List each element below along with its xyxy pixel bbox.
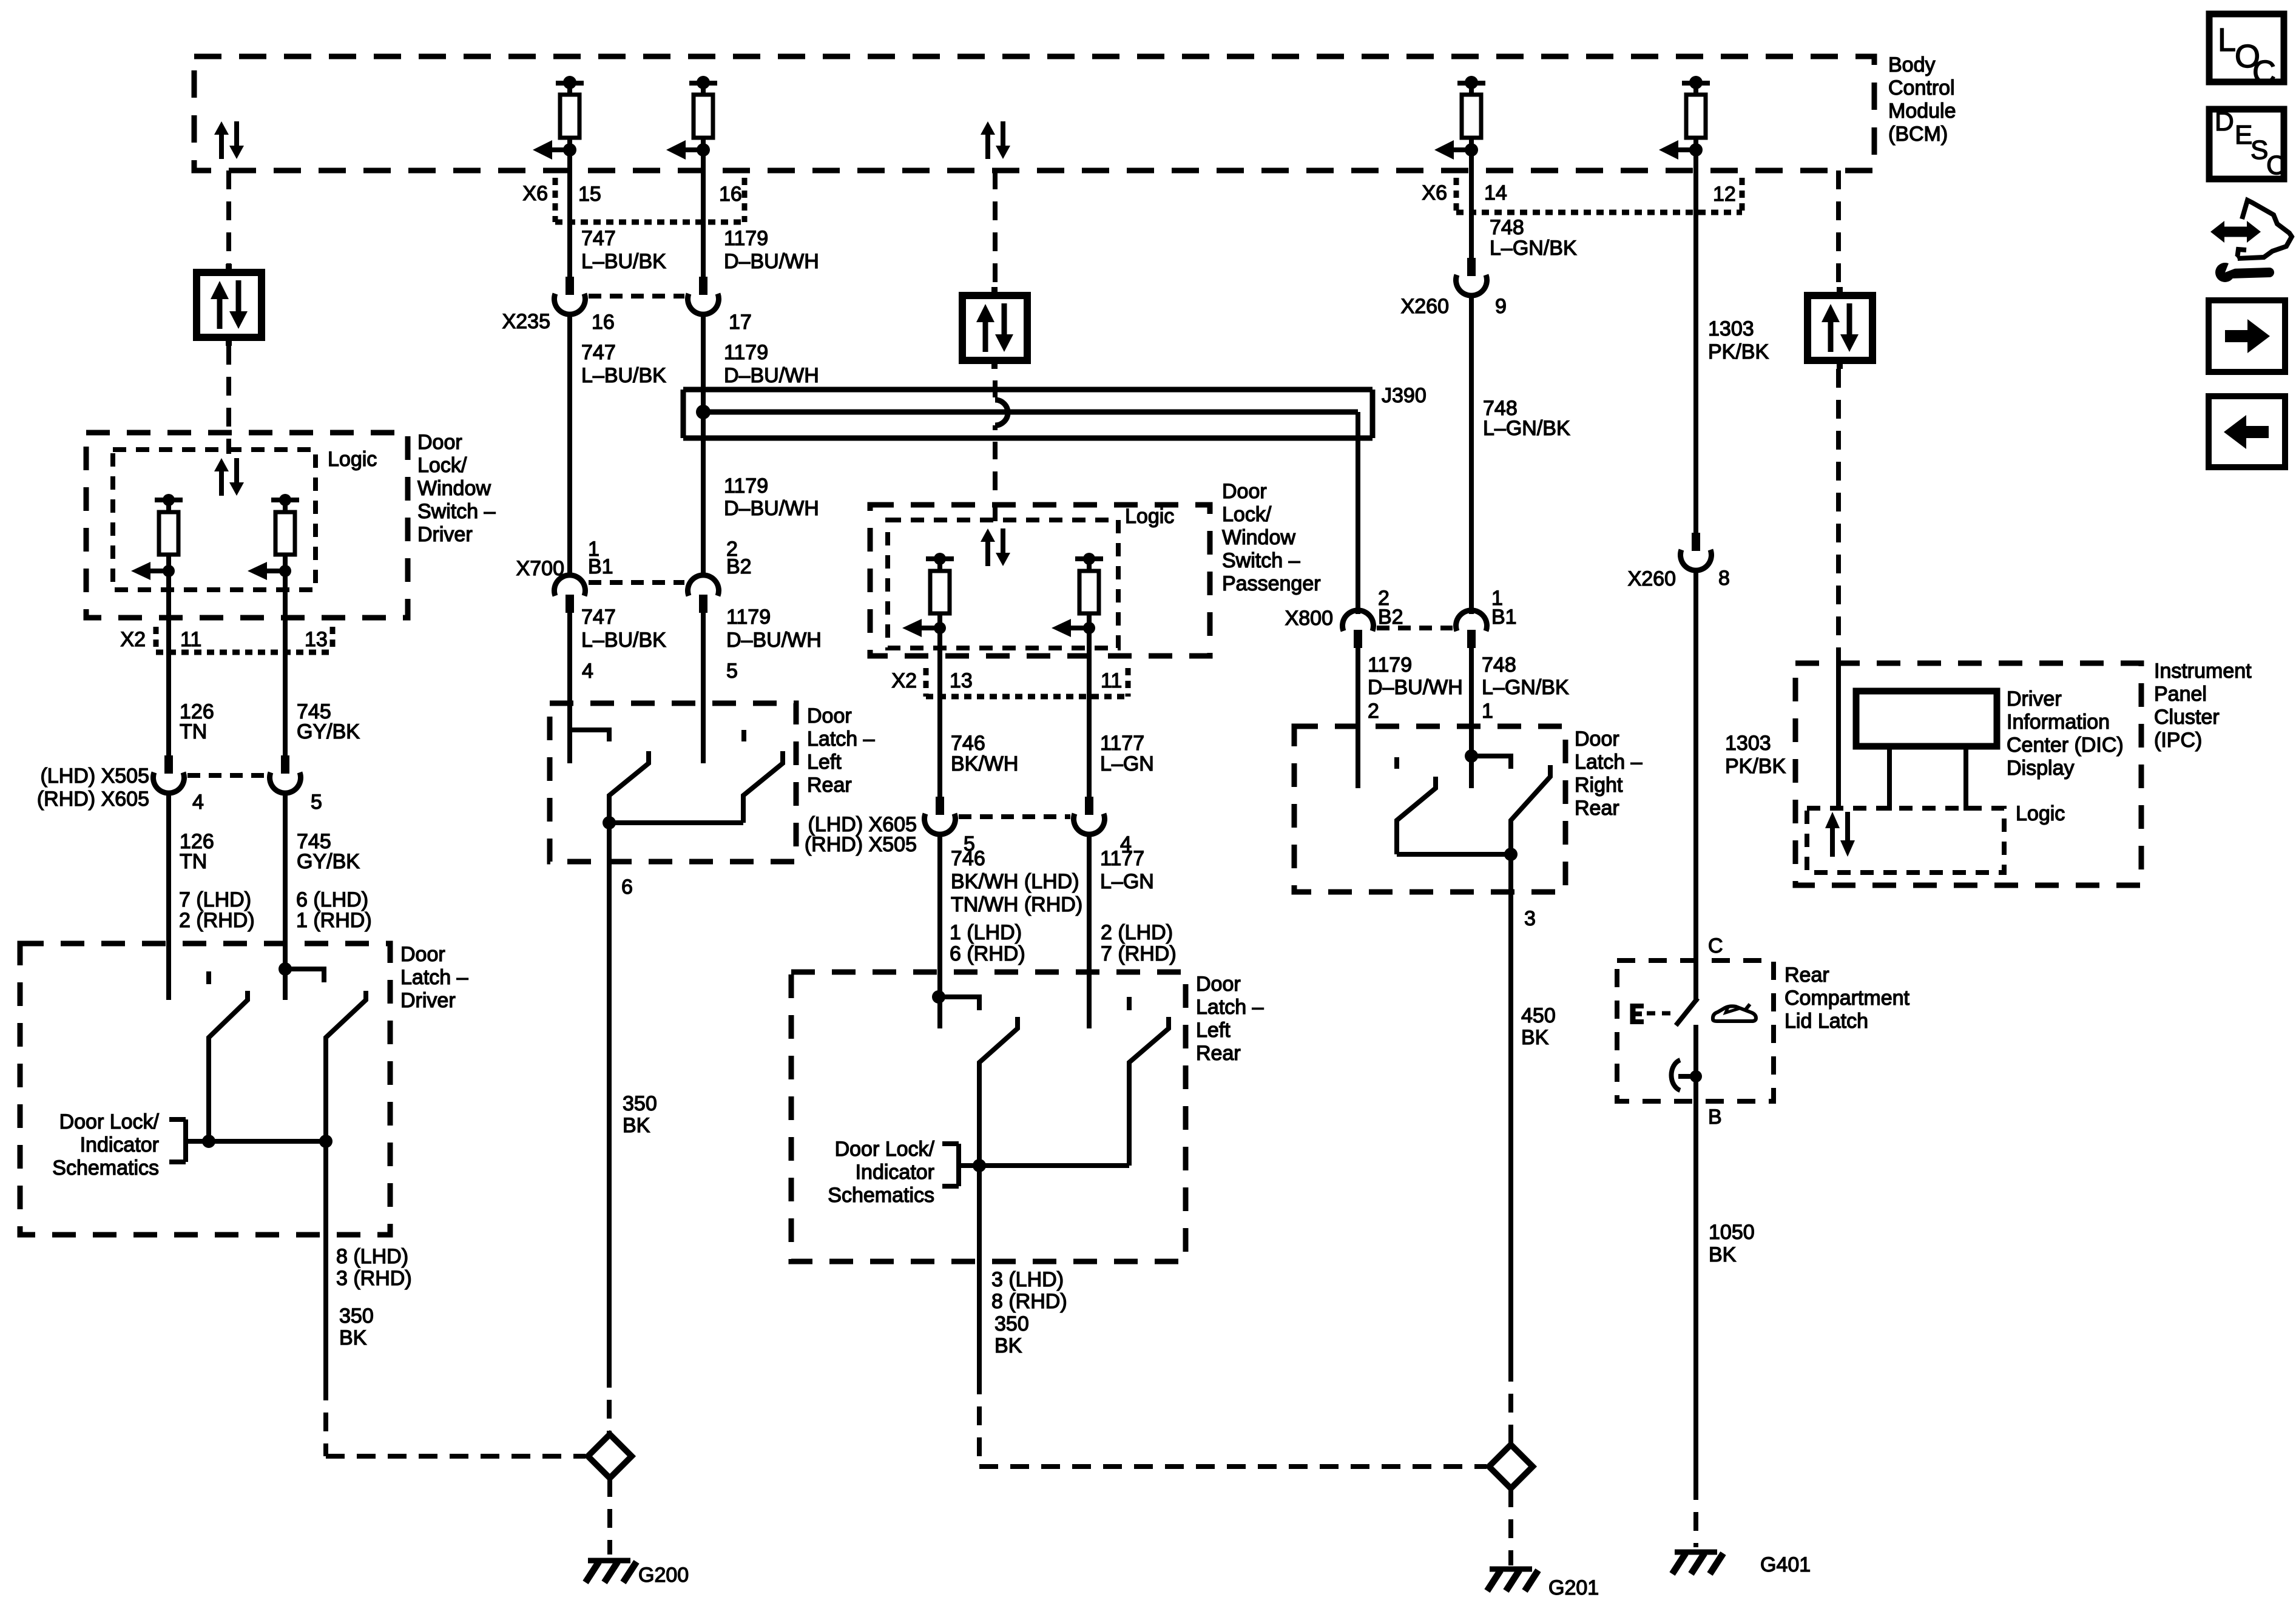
svg-text:B2: B2	[726, 555, 752, 578]
crossover hop at J390 middle rail	[995, 400, 1008, 425]
wire 748 from BCM pin 14 to X260	[1469, 170, 1474, 258]
svg-text:BK/WH (LHD): BK/WH (LHD)	[951, 870, 1079, 893]
svg-text:6 (LHD): 6 (LHD)	[296, 888, 368, 911]
svg-text:B2: B2	[1378, 606, 1403, 629]
svg-text:2 (RHD): 2 (RHD)	[179, 909, 255, 932]
component box: Door Lock/Window Switch - Passenger	[870, 505, 1210, 656]
resistor: driver lock switch	[155, 498, 183, 502]
svg-text:Rear: Rear	[1784, 964, 1829, 987]
svg-text:6: 6	[621, 876, 633, 899]
wire 746 from X2-13 to X605	[937, 697, 942, 797]
svg-text:C: C	[2266, 150, 2286, 180]
wire: BCM to driver switch (dashed logic line)	[226, 170, 231, 265]
svg-text:Door Lock/: Door Lock/	[59, 1110, 160, 1133]
svg-text:TN/WH (RHD): TN/WH (RHD)	[951, 893, 1082, 916]
svg-text:Indicator: Indicator	[856, 1161, 934, 1184]
svg-text:BK: BK	[1709, 1243, 1737, 1266]
dashed ground run (passenger latch)	[977, 1376, 982, 1467]
svg-text:Lock/: Lock/	[417, 454, 467, 477]
dashed run below G201 diamond	[1508, 1488, 1513, 1565]
switch blade 1 (passenger latch)	[979, 1017, 1018, 1166]
wire: dashed below IPC serial symbol	[1836, 369, 1841, 648]
output wire from driver latch	[323, 1141, 328, 1382]
wire 1179 from J390 rail down to X800	[1356, 412, 1360, 614]
switch blade 1 (right rear latch)	[1397, 777, 1436, 854]
connector X605/X505 terminal pin 4	[1085, 797, 1093, 815]
svg-text:X6: X6	[1422, 181, 1447, 204]
svg-text:PK/BK: PK/BK	[1708, 340, 1769, 363]
svg-text:X2: X2	[891, 669, 917, 692]
svg-text:748: 748	[1490, 216, 1524, 239]
svg-text:X2: X2	[120, 628, 146, 651]
svg-text:(LHD) X505: (LHD) X505	[40, 765, 149, 788]
fixed contact stub (driver latch left)	[206, 971, 211, 984]
svg-text:1177: 1177	[1100, 732, 1144, 755]
svg-text:1303: 1303	[1708, 317, 1754, 340]
wire 747 from X235 to X700	[567, 313, 572, 576]
svg-text:D–BU/WH: D–BU/WH	[724, 250, 819, 273]
svg-text:Display: Display	[2007, 757, 2074, 780]
dashed actuator link	[1647, 1011, 1673, 1016]
junction dot (left rear latch)	[603, 816, 616, 829]
switch blade 1 (left rear latch)	[609, 751, 649, 823]
dashed ground run (driver latch)	[323, 1382, 328, 1456]
fixed contact stub (passenger latch right)	[1127, 997, 1132, 1010]
svg-text:1179: 1179	[724, 227, 768, 250]
svg-text:450: 450	[1521, 1004, 1556, 1027]
component box: Door Latch - Left Rear	[550, 703, 796, 862]
svg-text:L–BU/BK: L–BU/BK	[581, 629, 666, 652]
svg-text:1179: 1179	[724, 474, 768, 498]
resistor: passenger lock switch	[926, 556, 954, 561]
svg-text:Panel: Panel	[2154, 683, 2207, 706]
svg-text:B1: B1	[1491, 606, 1517, 629]
wire: dash below hop	[993, 425, 998, 430]
switch blade 2 (left rear latch)	[743, 751, 783, 823]
wire 745 from X505 to driver latch	[283, 792, 288, 1000]
icon: LOC box	[2209, 14, 2284, 82]
ground G200	[588, 1558, 630, 1564]
latch pawl symbol	[1671, 1060, 1680, 1090]
serial data symbol: IPC line	[1837, 287, 1843, 295]
output wire from right rear latch	[1508, 854, 1513, 1363]
svg-text:BK: BK	[994, 1334, 1022, 1357]
wire 746 from X605 to left rear latch	[937, 833, 942, 1028]
dashed ground run to G401	[1693, 1481, 1698, 1547]
junction dot blade1 bottom	[202, 1135, 215, 1148]
svg-text:Switch –: Switch –	[417, 500, 496, 523]
svg-text:4: 4	[192, 791, 204, 814]
icon: adjust/repair (arrow and wrench)	[2221, 227, 2250, 237]
svg-text:747: 747	[581, 606, 616, 629]
ground G401	[1675, 1550, 1717, 1555]
svg-text:C: C	[1708, 934, 1723, 957]
svg-text:2 (LHD): 2 (LHD)	[1101, 921, 1173, 944]
svg-text:L–GN/BK: L–GN/BK	[1490, 237, 1577, 260]
svg-text:Cluster: Cluster	[2154, 706, 2220, 729]
wire inside lid latch	[1693, 1025, 1698, 1101]
svg-text:746: 746	[951, 732, 985, 755]
svg-text:Left: Left	[1196, 1019, 1231, 1042]
svg-text:11: 11	[1101, 669, 1122, 692]
svg-text:16: 16	[719, 183, 742, 206]
svg-text:8 (LHD): 8 (LHD)	[336, 1245, 408, 1268]
output wire 350 BK from left rear latch	[607, 823, 612, 1369]
wire 1179 from X235 through J390 to X700	[701, 313, 706, 576]
svg-text:Door: Door	[807, 704, 852, 727]
connector X700 pin 1/B1 terminal	[555, 575, 586, 596]
component box: Door Latch - Left Rear (passenger circuit)	[791, 972, 1186, 1261]
svg-text:1177: 1177	[1100, 847, 1144, 870]
svg-text:Latch –: Latch –	[1196, 996, 1264, 1019]
icon: DESC box	[2209, 109, 2284, 179]
junction dot on wire 745 in driver latch	[279, 962, 292, 976]
connector X235 pin 17 terminal	[699, 277, 707, 295]
switch blade 2 (driver latch)	[326, 991, 366, 1141]
svg-text:Body: Body	[1888, 53, 1936, 76]
svg-text:Latch –: Latch –	[400, 966, 468, 989]
ground splice diamond G201	[1489, 1445, 1533, 1488]
svg-text:Compartment: Compartment	[1784, 987, 1910, 1010]
svg-text:D–BU/WH: D–BU/WH	[726, 629, 822, 652]
junction dot (lid latch)	[1690, 1070, 1702, 1082]
svg-text:TN: TN	[180, 720, 207, 743]
svg-text:TN: TN	[180, 850, 207, 873]
svg-text:14: 14	[1484, 181, 1507, 204]
logic symbol in driver switch	[219, 471, 224, 496]
dashed link between X800 terminals	[1377, 626, 1453, 630]
junction dot (right rear latch)	[1504, 848, 1518, 861]
svg-text:1050: 1050	[1709, 1221, 1755, 1244]
svg-text:D–BU/WH: D–BU/WH	[1368, 676, 1463, 699]
component box: Door Lock/Window Switch - Driver	[86, 433, 408, 618]
svg-text:L: L	[2218, 22, 2236, 58]
svg-text:Left: Left	[807, 751, 842, 774]
connector X700 pin 2/B2 terminal	[688, 575, 719, 596]
resistor: passenger unlock switch	[1075, 556, 1103, 561]
bracket to door lock/indicator schematics	[183, 1119, 188, 1162]
svg-text:Door: Door	[1222, 480, 1267, 503]
component box: Door Latch - Right Rear	[1294, 726, 1565, 892]
svg-text:5: 5	[726, 660, 738, 683]
fixed contact stub (right rear latch)	[1394, 757, 1399, 769]
dashed link between X235 terminals	[589, 294, 684, 299]
wire: solid into IPC	[1836, 648, 1841, 811]
svg-text:Control: Control	[1888, 76, 1955, 100]
svg-text:3 (LHD): 3 (LHD)	[991, 1268, 1064, 1291]
svg-text:Right: Right	[1575, 774, 1623, 797]
dashed link between X700 terminals	[589, 580, 684, 585]
svg-text:Logic: Logic	[328, 448, 377, 471]
svg-text:D: D	[2215, 107, 2234, 137]
svg-text:(RHD) X605: (RHD) X605	[37, 788, 149, 811]
svg-text:Driver: Driver	[400, 989, 456, 1012]
svg-text:13: 13	[305, 628, 328, 651]
svg-text:BK: BK	[339, 1326, 367, 1349]
svg-text:Door: Door	[1575, 727, 1619, 751]
svg-text:1303: 1303	[1725, 732, 1771, 755]
svg-text:BK/WH: BK/WH	[951, 752, 1018, 775]
svg-text:747: 747	[581, 341, 616, 364]
wire 1177 from X605 to left rear latch	[1087, 833, 1092, 1028]
connector X800 terminal B2	[1343, 610, 1374, 631]
dashed run below diamond	[607, 1478, 612, 1555]
wire 1303 from X260 to lid latch	[1693, 569, 1698, 1002]
svg-text:1179: 1179	[726, 606, 771, 629]
icon: forward arrow box	[2209, 300, 2285, 372]
svg-text:G401: G401	[1760, 1553, 1811, 1576]
resistor: BCM right-lock output (wire 748)	[1457, 81, 1485, 86]
link bar between blades (passenger latch)	[959, 1163, 1129, 1168]
svg-text:D–BU/WH: D–BU/WH	[724, 364, 819, 387]
svg-text:X700: X700	[516, 557, 564, 580]
link bar between blades (right rear latch)	[1397, 852, 1511, 857]
wire: dashed below driver serial symbol	[226, 346, 231, 454]
svg-text:Door: Door	[417, 431, 462, 454]
svg-text:Driver: Driver	[417, 523, 473, 546]
svg-text:GY/BK: GY/BK	[297, 850, 360, 873]
svg-text:B: B	[1708, 1106, 1722, 1129]
wire 126 from X2-11 to X505	[166, 652, 171, 755]
svg-text:L–GN/BK: L–GN/BK	[1482, 676, 1569, 699]
svg-text:350: 350	[339, 1305, 374, 1328]
svg-text:1179: 1179	[1368, 653, 1412, 677]
switch blade 1 (driver latch)	[209, 991, 248, 1141]
svg-text:Instrument: Instrument	[2154, 660, 2252, 683]
logic symbol inside BCM (driver switch line)	[219, 135, 224, 159]
svg-text:350: 350	[623, 1092, 657, 1115]
svg-text:5: 5	[311, 791, 322, 814]
bracket to door lock/indicator schematics (passenger)	[956, 1144, 961, 1186]
svg-text:13: 13	[950, 669, 973, 692]
svg-text:Center (DIC): Center (DIC)	[2007, 734, 2124, 757]
wire: BCM to passenger switch (dashed logic line)	[993, 170, 998, 287]
DIC leg right	[1963, 746, 1968, 811]
svg-text:PK/BK: PK/BK	[1725, 755, 1786, 778]
logic symbol inside BCM (passenger switch line)	[985, 135, 990, 159]
svg-text:Door: Door	[1196, 973, 1241, 996]
svg-text:Schematics: Schematics	[828, 1184, 934, 1207]
splice pack J390 outer band	[683, 387, 1373, 393]
resistor: BCM rear-lid output (wire 1303)	[1682, 81, 1710, 86]
component box: Door Latch - Driver	[20, 944, 390, 1235]
dashed ground run to G200	[607, 1369, 612, 1434]
switch blade 2 (passenger latch)	[1129, 1017, 1169, 1166]
svg-text:BK: BK	[1521, 1026, 1549, 1049]
svg-text:7 (RHD): 7 (RHD)	[1101, 942, 1177, 965]
svg-text:(RHD) X505: (RHD) X505	[805, 833, 917, 856]
switch blade 2 (right rear latch)	[1511, 765, 1550, 854]
svg-text:BK: BK	[623, 1114, 650, 1137]
wire 1177 from X2-11 to X605	[1087, 697, 1092, 797]
svg-text:Indicator: Indicator	[80, 1133, 159, 1156]
wire 748 from X260 to X800	[1469, 295, 1474, 614]
link bar between blades (left rear latch)	[609, 820, 743, 825]
svg-text:GY/BK: GY/BK	[297, 720, 360, 743]
svg-text:Passenger: Passenger	[1222, 572, 1321, 595]
module box: Body Control Module (BCM)	[194, 56, 1874, 170]
junction dot on wire 746	[932, 990, 945, 1004]
car icon (lid latch)	[1713, 1006, 1756, 1021]
splice pack J390 middle rail	[703, 410, 1358, 415]
branch stub from wire 746	[939, 997, 979, 1010]
svg-text:G201: G201	[1548, 1576, 1599, 1599]
svg-text:17: 17	[729, 311, 752, 334]
svg-text:Door: Door	[400, 943, 445, 966]
logic box (passenger switch)	[888, 520, 1118, 648]
svg-text:X260: X260	[1401, 295, 1449, 318]
svg-text:X6: X6	[522, 182, 548, 205]
svg-text:748: 748	[1482, 653, 1516, 677]
svg-text:1: 1	[1482, 700, 1493, 723]
component box: Rear Compartment Lid Latch	[1617, 960, 1774, 1101]
svg-text:9: 9	[1495, 295, 1507, 318]
svg-text:Latch –: Latch –	[807, 727, 875, 751]
svg-text:7 (LHD): 7 (LHD)	[179, 888, 251, 911]
svg-text:Module: Module	[1888, 100, 1956, 123]
icon: back arrow box	[2209, 396, 2285, 467]
svg-text:E: E	[2235, 120, 2252, 150]
svg-text:(IPC): (IPC)	[2154, 729, 2202, 752]
connector X260 pin 9 terminal	[1467, 258, 1476, 276]
DIC display box	[1856, 691, 1997, 746]
svg-text:S: S	[2250, 135, 2268, 165]
serial data symbol: passenger switch line	[991, 287, 998, 295]
svg-text:8: 8	[1718, 567, 1730, 590]
svg-text:Latch –: Latch –	[1575, 751, 1643, 774]
svg-text:C: C	[2252, 54, 2276, 90]
serial data symbol: driver switch line	[226, 264, 232, 272]
branch stub from wire 748	[1471, 756, 1511, 769]
svg-text:B1: B1	[588, 555, 613, 578]
dashed link between X605 terminals	[959, 814, 1070, 819]
svg-text:Window: Window	[417, 477, 491, 500]
svg-text:12: 12	[1713, 183, 1736, 206]
svg-text:1179: 1179	[724, 341, 768, 364]
svg-text:L–GN/BK: L–GN/BK	[1483, 417, 1570, 440]
svg-text:8 (RHD): 8 (RHD)	[991, 1290, 1067, 1313]
svg-text:1 (LHD): 1 (LHD)	[950, 921, 1022, 944]
switch blade (lid latch)	[1676, 998, 1698, 1025]
wire: dash crossing J390 top line	[993, 380, 998, 397]
branch stub from wire 745	[285, 969, 324, 982]
splice junction J390 dot	[696, 405, 711, 419]
junction dot (passenger latch)	[973, 1159, 986, 1172]
connector X605/X505 terminal pin 5	[936, 797, 944, 815]
logic box (IPC)	[1807, 808, 2004, 873]
svg-text:16: 16	[592, 311, 615, 334]
svg-text:Lid Latch: Lid Latch	[1784, 1010, 1868, 1033]
svg-text:Information: Information	[2007, 711, 2110, 734]
switch actuator E symbol	[1630, 1004, 1636, 1024]
svg-text:Lock/: Lock/	[1222, 503, 1272, 526]
dashed link between X505 terminals	[187, 773, 266, 778]
svg-text:X800: X800	[1285, 607, 1333, 630]
component box: Instrument Panel Cluster (IPC)	[1795, 663, 2141, 885]
branch stub from wire 747	[570, 730, 609, 741]
svg-text:6 (RHD): 6 (RHD)	[950, 942, 1025, 965]
connector X260 pin 8 terminal	[1692, 533, 1700, 551]
junction dot on wire 748	[1465, 749, 1478, 763]
svg-text:J390: J390	[1382, 384, 1427, 407]
resistor: BCM driver-unlock output (wire 1179)	[689, 81, 717, 86]
wire 1050 BK to G401	[1693, 1101, 1698, 1481]
svg-text:L–BU/BK: L–BU/BK	[581, 364, 666, 387]
svg-text:Logic: Logic	[1125, 505, 1174, 528]
fixed contact stub (left rear latch)	[741, 730, 746, 741]
link bar between blades	[186, 1139, 326, 1144]
wire 747 from X700 to door latch left rear	[567, 613, 572, 763]
svg-text:X260: X260	[1628, 567, 1676, 590]
svg-text:L–BU/BK: L–BU/BK	[581, 250, 666, 273]
svg-text:L–GN: L–GN	[1100, 870, 1154, 893]
wire: BCM to IPC (dashed logic line)	[1836, 170, 1841, 287]
svg-text:Rear: Rear	[1196, 1042, 1241, 1065]
wire: dash crossing below J390 bottom line	[993, 442, 998, 459]
connector X505/X605 terminal pin 5	[281, 755, 289, 774]
connector X800 terminal B1	[1456, 610, 1487, 631]
svg-text:Logic: Logic	[2016, 802, 2065, 825]
ground splice diamond G200	[588, 1434, 632, 1478]
svg-text:L–GN: L–GN	[1100, 752, 1154, 775]
svg-text:746: 746	[951, 847, 985, 870]
wire 126 from X505 to driver latch	[166, 792, 171, 1000]
connector X235 pin 16 terminal	[566, 277, 574, 295]
wire 748 from X800 to right rear latch	[1469, 648, 1474, 788]
connector X505/X605 terminal pin 4	[164, 755, 173, 774]
svg-text:Schematics: Schematics	[52, 1156, 159, 1180]
svg-text:X235: X235	[502, 310, 550, 333]
wire 1179 from BCM pin 16 to X235	[701, 170, 706, 277]
svg-text:Door Lock/: Door Lock/	[835, 1138, 935, 1161]
wire 1179 from X700 to door latch left rear	[701, 613, 706, 763]
svg-text:747: 747	[581, 227, 616, 250]
wire 747 from BCM pin 15 to X235	[567, 170, 572, 277]
svg-text:2: 2	[1368, 700, 1379, 723]
DIC leg left	[1887, 746, 1892, 811]
output wire from passenger latch	[977, 1166, 982, 1376]
resistor: driver unlock switch	[271, 498, 299, 502]
svg-text:Window: Window	[1222, 526, 1295, 549]
ground G201	[1490, 1567, 1532, 1572]
svg-text:3: 3	[1524, 907, 1536, 930]
svg-text:D–BU/WH: D–BU/WH	[724, 497, 819, 520]
svg-text:15: 15	[578, 183, 601, 206]
dashed ground run to G201	[1508, 1363, 1513, 1445]
svg-text:1 (RHD): 1 (RHD)	[296, 909, 372, 932]
wire 1179 from X800 to right rear latch	[1356, 648, 1360, 788]
svg-text:Switch –: Switch –	[1222, 549, 1300, 572]
svg-text:Rear: Rear	[807, 774, 852, 797]
svg-text:11: 11	[180, 628, 201, 651]
wire 745 from X2-13 to X505	[283, 652, 288, 755]
logic symbol in passenger switch	[985, 542, 990, 566]
svg-text:G200: G200	[638, 1564, 689, 1587]
logic box (driver switch)	[113, 450, 316, 590]
wire: dashed from hop to passenger logic box	[993, 471, 998, 524]
svg-text:4: 4	[582, 660, 593, 683]
svg-text:3 (RHD): 3 (RHD)	[336, 1267, 412, 1290]
svg-text:(BCM): (BCM)	[1888, 123, 1948, 146]
logic symbol in IPC	[1830, 828, 1835, 857]
svg-text:350: 350	[994, 1312, 1029, 1335]
resistor: BCM driver-lock output (wire 747)	[556, 81, 584, 86]
wire 1303 from BCM pin 12 to X260	[1693, 170, 1698, 533]
svg-text:Rear: Rear	[1575, 797, 1619, 820]
svg-text:Driver: Driver	[2007, 687, 2062, 711]
junction dot blade2 bottom	[319, 1135, 333, 1148]
